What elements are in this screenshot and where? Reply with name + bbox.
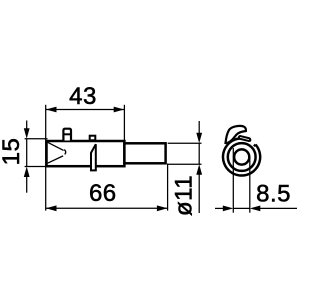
node: 8.5 right outside arrow bbox=[259, 207, 297, 209]
svg-text:66: 66 bbox=[89, 180, 117, 207]
component: cam beak (top-left hook) bbox=[226, 126, 246, 143]
component: shaft rectangle (side view) bbox=[124, 143, 165, 163]
node: 15 bottom outside arrow bbox=[26, 176, 28, 193]
node: arrow right of 43 bbox=[114, 107, 125, 113]
wire: phi11 bottom extension (horizontal) bbox=[168, 163, 202, 165]
wire: phi11 top extension (horizontal) bbox=[168, 142, 202, 144]
svg-text:ø11: ø11 bbox=[170, 175, 197, 216]
node: arrow left of 66 bbox=[46, 205, 57, 211]
component: small square lug bbox=[90, 136, 96, 141]
node: 8.5 left outside arrow bbox=[215, 207, 224, 209]
node: phi11 dimension line middle bbox=[198, 143, 200, 164]
component: end view inner circle bbox=[234, 149, 249, 164]
component: main body rectangle (side view) bbox=[47, 141, 125, 166]
node: phi11 top outside arrow bbox=[198, 121, 200, 134]
node: dimension 66 line bbox=[46, 207, 167, 209]
svg-text:15: 15 bbox=[0, 138, 25, 166]
wire: 15 top extension bbox=[25, 138, 48, 140]
component: cam blade bbox=[91, 144, 96, 170]
component: end view outer circle bbox=[223, 138, 260, 175]
svg-text:43: 43 bbox=[69, 83, 97, 110]
component: cone chamfer bottom line bbox=[48, 156, 64, 163]
wire: right extension line of 66 dim bbox=[167, 164, 169, 211]
node: phi11 bottom outside arrow bbox=[198, 174, 200, 213]
component: end view middle circle bbox=[228, 143, 256, 171]
node: 8.5 dimension line middle bbox=[233, 207, 249, 209]
wire: 8.5 left extension bbox=[232, 148, 234, 213]
wire: 15 bottom extension bbox=[25, 166, 48, 168]
node: outer rim step tick bbox=[254, 145, 256, 147]
node: arrow left of 43 bbox=[46, 107, 57, 113]
wire: 8.5 right extension bbox=[249, 158, 251, 213]
wire: left extension line (43/66 dims) bbox=[45, 105, 47, 211]
component: cone apex arc bbox=[64, 150, 65, 155]
component: top tab with rounded cap bbox=[63, 129, 71, 141]
wire: right extension line of 43 dim bbox=[123, 105, 125, 140]
node: 15 top outside arrow bbox=[26, 121, 28, 130]
component: small flange bar on circle top bbox=[239, 136, 251, 141]
node: dimension 15 line bbox=[26, 139, 28, 167]
component: cone chamfer top line bbox=[48, 142, 64, 150]
svg-text:8.5: 8.5 bbox=[256, 181, 291, 208]
node: arrow right of 66 bbox=[157, 205, 168, 211]
node: dimension 43 line bbox=[46, 109, 124, 111]
